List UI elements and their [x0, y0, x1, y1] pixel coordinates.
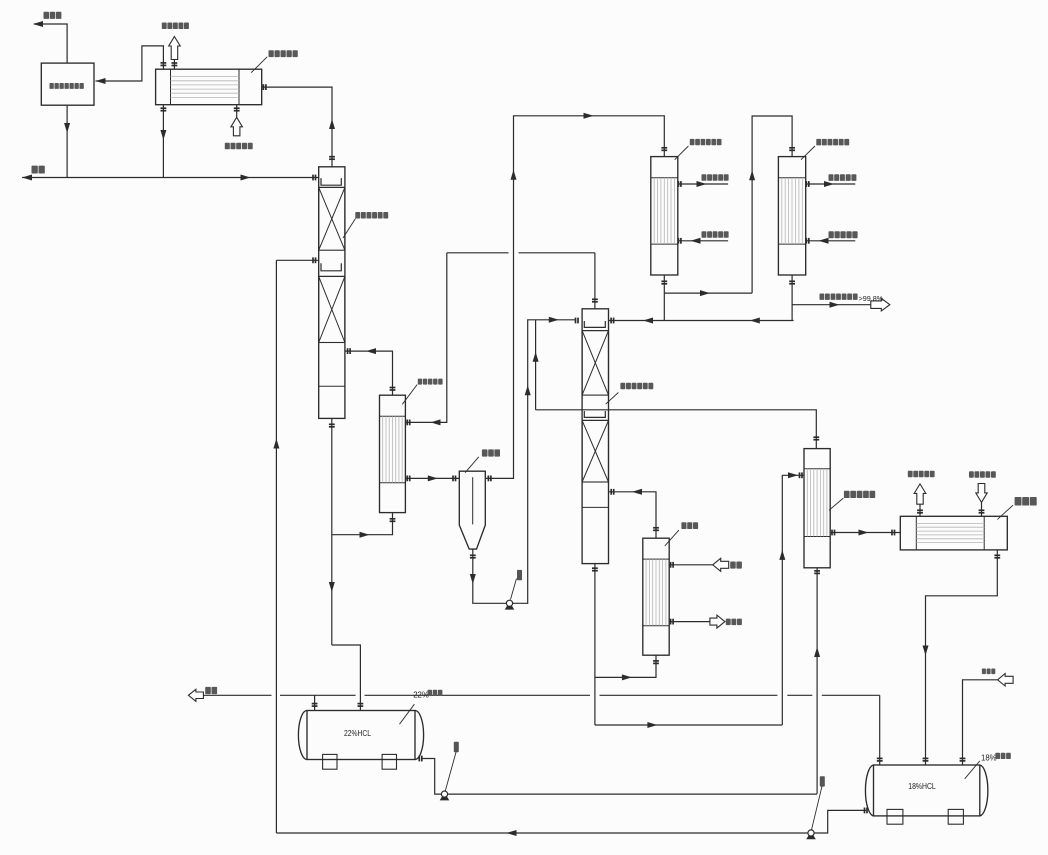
wire vacuum box bottom to waste header	[66, 105, 68, 177]
svg-text:18%HCL: 18%HCL	[908, 782, 936, 791]
final cooler 冷却器 shell	[900, 516, 1007, 550]
exchanger1 bottom to riser and return header	[663, 275, 665, 321]
column1 mid feed from 18% acid riser	[276, 259, 318, 261]
column1 top distributor	[321, 178, 341, 185]
hot acid line desorber mid to two-stage heat exchanger top	[536, 410, 817, 449]
cooling water outlet nozzle	[173, 60, 175, 70]
column2 packing section 2	[582, 420, 608, 482]
column1 vapor side nozzle to condenser top	[345, 351, 393, 395]
vent line to atmosphere	[34, 24, 67, 63]
svg-text:18%: 18%	[981, 753, 997, 762]
label 冷却器 with leader	[1015, 497, 1037, 506]
22% tank vent to header	[314, 695, 316, 710]
label 氯化氢深冷器 with leader	[816, 139, 849, 146]
column2 top distributor	[584, 321, 605, 327]
condensate return header into column2 top right nozzle	[609, 320, 794, 322]
HCl deep cooler 氯化氢深冷器 shell	[778, 157, 805, 275]
label 双级冷凝器 with leader	[418, 379, 443, 385]
column1 packing section 2	[319, 276, 345, 342]
pump at 18% tank 泵	[806, 835, 816, 839]
steam inlet 蒸汽	[669, 564, 713, 566]
buffer tank gas outlet riser to HCl cooler	[485, 116, 664, 479]
cooling water inlet nozzle	[236, 105, 238, 117]
label 脱水塔（负压） with leader	[355, 212, 388, 219]
cooler drain to waste header	[162, 105, 164, 178]
tank1 outlet to pump	[422, 759, 442, 795]
label 废水	[32, 166, 45, 174]
waste gas header 废气	[188, 689, 203, 701]
18% dilute acid tank 18%HCL	[865, 765, 987, 816]
riser to deep cooler 氯化氢深冷器	[752, 116, 792, 293]
label 酸气冷却器 with leader	[269, 50, 298, 57]
tank1 support legs	[323, 754, 337, 769]
label 双级换热器 with leader	[844, 491, 875, 498]
label 氯化氢冷却器 with leader	[690, 139, 722, 145]
exchanger2 chilled water inlet 冷冻水进口	[806, 240, 856, 242]
wire cooler gas outlet to vacuum box	[96, 46, 164, 81]
condensate outlet 冷凝水	[669, 621, 711, 623]
pump riser to desorber top feed	[513, 320, 576, 604]
18% acid pump discharge to dehydration column riser	[276, 832, 808, 834]
cooler cooling water inlet 冷却水进口	[981, 502, 983, 516]
product gas line 产品氯化氢气体>99.8%	[792, 304, 871, 306]
header drop into 18% tank	[879, 695, 881, 765]
svg-text:>99.8%: >99.8%	[859, 294, 884, 303]
svg-text:22%: 22%	[413, 690, 429, 699]
column1 bottom outlet	[331, 418, 333, 645]
jog to 22% tank	[332, 645, 361, 711]
exchanger1 cooling water inlet	[678, 240, 728, 242]
label 再沸器 with leader	[681, 522, 698, 529]
branch column1 bottoms to condenser bottom	[332, 513, 393, 535]
column2 sump level line	[582, 506, 608, 508]
wire condenser lower nozzle to buffer tank	[405, 477, 459, 479]
desorption column 脱吸塔 shell	[582, 309, 608, 564]
two-stage heat exchanger 双级换热器 shell	[804, 449, 830, 568]
label 放空气	[44, 12, 62, 19]
column2 packing section 1	[582, 331, 608, 396]
exchanger2 bottom / product takeoff	[791, 275, 793, 321]
wire column1 overhead to cooler right nozzle	[262, 87, 332, 167]
column2 bottoms to exchanger riser (vertical A)	[595, 724, 782, 726]
buffer tank bottom to pump	[473, 549, 507, 603]
reboiler 再沸器 shell	[643, 538, 669, 655]
exchanger1 cooling water outlet	[678, 183, 728, 185]
column2 reboiler vapor return nozzle	[609, 492, 657, 538]
22% acid pump discharge to exchanger riser	[448, 793, 817, 795]
tank2 support legs	[887, 809, 903, 824]
riser from heat exchanger top to desorber feed line	[535, 320, 537, 410]
column2 mid distributor band	[582, 419, 608, 421]
label 冷却水进口	[225, 143, 253, 150]
exchanger2 chilled water outlet 冷冻水出口	[806, 183, 856, 185]
22% dilute acid tank 22%HCL	[298, 711, 423, 760]
buffer tank 缓冲罐 body	[459, 471, 485, 549]
column1 mid distributor band	[319, 275, 345, 277]
waste water header 废水	[22, 177, 319, 179]
branch to reboiler bottom	[595, 655, 656, 677]
exchanger3 bottom riser (vertical B) from acid pump	[816, 568, 818, 794]
column2 bottom outlet	[594, 564, 596, 725]
HCl cooler 氯化氢冷却器 shell	[651, 157, 678, 275]
exchanger3 right nozzle to cooler	[830, 532, 900, 534]
two-stage condenser 双级冷凝器 shell	[380, 395, 406, 512]
tank2 bottom outlet to pump	[814, 810, 866, 833]
cooler outlet down to 18% tank	[926, 550, 998, 765]
raw acid inlet 原料酸	[963, 680, 998, 765]
exchanger1 top nozzle	[663, 148, 665, 157]
acid gas cooler 酸气冷却器 shell	[156, 69, 262, 105]
vacuum pump box 蒸汽喷射真空泵	[41, 63, 94, 105]
cooler cooling water outlet 冷却水出口	[919, 504, 921, 516]
column1 sump level line	[319, 385, 345, 387]
label 脱吸塔（正压） with leader	[620, 383, 653, 390]
svg-text:22%HCL: 22%HCL	[344, 729, 371, 738]
riser 18% acid to column1	[275, 260, 277, 833]
pump at 22% tank 泵	[440, 796, 450, 800]
label 冷却水出口	[162, 23, 189, 30]
label 缓冲罐 with leader	[482, 449, 500, 456]
wire desorber overhead to condenser upper nozzle	[594, 253, 596, 309]
dehydration column 脱水塔 shell	[319, 167, 345, 419]
pump at buffer tank 泵	[505, 606, 515, 610]
column1 packing section 1	[319, 187, 345, 250]
